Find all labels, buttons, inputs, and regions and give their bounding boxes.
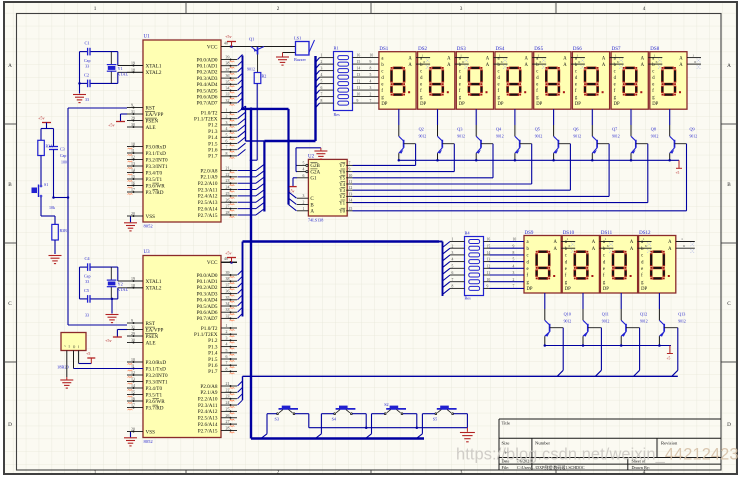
wire CBA fan — [289, 192, 297, 198]
svg-text:1: 1 — [452, 238, 454, 242]
svg-text:15: 15 — [131, 391, 135, 395]
svg-text:U3: U3 — [144, 250, 151, 255]
svg-text:P0.5/AD5: P0.5/AD5 — [197, 88, 218, 94]
svg-text:S5: S5 — [433, 417, 437, 422]
svg-text:Y5: Y5 — [339, 177, 346, 182]
svg-text:8: 8 — [226, 367, 228, 371]
svg-text:P1.7: P1.7 — [208, 369, 218, 375]
svg-text:7: 7 — [226, 361, 228, 365]
svg-text:DP: DP — [565, 287, 571, 292]
svg-text:File:: File: — [502, 465, 510, 470]
wire R4 to DS9 — [490, 241, 525, 243]
svg-text:6: 6 — [578, 60, 580, 64]
svg-text:9: 9 — [370, 60, 372, 64]
svg-text:VCC: VCC — [207, 260, 218, 266]
svg-text:9012: 9012 — [612, 135, 620, 139]
svg-text:P2.3/A11: P2.3/A11 — [198, 187, 218, 193]
svg-text:9012: 9012 — [535, 135, 543, 139]
svg-text:P0.3/AD3: P0.3/AD3 — [197, 76, 218, 82]
svg-text:G2B: G2B — [310, 164, 320, 169]
svg-text:PSEN: PSEN — [146, 118, 159, 124]
svg-text:VSS: VSS — [146, 429, 156, 435]
svg-text:13: 13 — [357, 73, 361, 77]
svg-text:c: c — [603, 254, 605, 259]
svg-text:VCC: VCC — [207, 44, 218, 50]
svg-text:+5: +5 — [86, 351, 90, 356]
svg-text:9: 9 — [131, 104, 133, 108]
resistor R3B — [41, 215, 55, 217]
svg-text:74LS138: 74LS138 — [308, 218, 323, 223]
svg-text:5: 5 — [226, 349, 228, 353]
svg-text:P2.6/A14: P2.6/A14 — [198, 422, 218, 428]
display common pins — [494, 57, 508, 59]
svg-text:XTAL2: XTAL2 — [146, 286, 162, 292]
svg-text:9: 9 — [487, 285, 489, 289]
svg-text:37: 37 — [226, 283, 230, 287]
svg-text:29: 29 — [131, 117, 135, 121]
svg-text:33: 33 — [85, 97, 89, 102]
svg-text:1: 1 — [605, 237, 607, 241]
svg-text:PSEN: PSEN — [146, 334, 159, 340]
wire S5 to ground rail — [454, 413, 468, 415]
svg-text:c: c — [420, 69, 422, 74]
wire R2 down to key bus — [256, 84, 258, 161]
svg-text:P2.4/A12: P2.4/A12 — [198, 409, 218, 415]
svg-text:33: 33 — [85, 313, 89, 318]
svg-text:Q7: Q7 — [612, 127, 617, 132]
svg-text:Q1: Q1 — [249, 37, 254, 42]
svg-text:11: 11 — [131, 365, 135, 369]
svg-text:Q8: Q8 — [651, 127, 656, 132]
svg-text:27: 27 — [226, 205, 230, 209]
svg-text:17: 17 — [131, 188, 135, 192]
svg-text:10k: 10k — [49, 205, 55, 210]
svg-text:Q3: Q3 — [457, 127, 462, 132]
svg-text:6: 6 — [452, 271, 454, 275]
svg-text:Q9: Q9 — [690, 127, 695, 132]
display common pins — [676, 241, 695, 243]
svg-text:3: 3 — [460, 469, 463, 475]
svg-text:C: C — [8, 301, 12, 307]
8052 MCU U3 — [143, 256, 221, 438]
svg-text:C2: C2 — [84, 73, 89, 78]
svg-text:P3.5/T1: P3.5/T1 — [146, 177, 163, 183]
svg-text:e: e — [641, 267, 643, 272]
svg-text:9: 9 — [131, 319, 133, 323]
svg-text:8: 8 — [452, 285, 454, 289]
svg-text:e: e — [575, 82, 577, 87]
svg-text:8: 8 — [321, 99, 323, 103]
wire key bus vertical (from P0 rail) — [250, 107, 253, 110]
svg-text:P1.6: P1.6 — [208, 148, 218, 154]
svg-text:39: 39 — [226, 56, 230, 60]
svg-text:DP: DP — [498, 102, 504, 107]
ground (U2 enable) — [296, 164, 297, 166]
svg-text:Y4: Y4 — [339, 183, 346, 188]
resistor R3A — [40, 129, 42, 141]
wire RST junction — [54, 197, 69, 199]
svg-text:3: 3 — [226, 121, 228, 125]
svg-text:34: 34 — [226, 87, 230, 91]
svg-text:P0.2/AD2: P0.2/AD2 — [197, 285, 218, 291]
wire 18B20 pin1 to ground — [66, 351, 68, 378]
svg-text:32: 32 — [226, 314, 230, 318]
svg-text:Cap: Cap — [60, 154, 66, 158]
display common pins — [687, 57, 701, 59]
wire S4 to key bus — [321, 413, 333, 415]
wire crystal rails — [79, 267, 81, 299]
svg-text:P0.7/AD7: P0.7/AD7 — [197, 316, 218, 322]
svg-text:9012: 9012 — [457, 135, 465, 139]
svg-text:40: 40 — [224, 42, 228, 46]
svg-text:e: e — [614, 82, 616, 87]
svg-text:+5v: +5v — [225, 34, 232, 39]
wire base bus (U3 P2 to Q10-Q13) — [243, 375, 678, 377]
wire emitter rail (bottom) — [545, 345, 671, 347]
svg-text:18: 18 — [131, 68, 135, 72]
svg-text:3: 3 — [321, 67, 323, 71]
wire emitter rail (top) — [399, 159, 679, 161]
svg-text:Q13: Q13 — [678, 312, 685, 317]
svg-text:31: 31 — [131, 326, 135, 330]
wire fan into R4 — [442, 242, 444, 297]
svg-text:P3.2/INT0: P3.2/INT0 — [146, 373, 168, 379]
svg-text:c: c — [565, 254, 567, 259]
wire U1 P0 bus fan — [238, 55, 243, 60]
svg-text:30: 30 — [131, 123, 135, 127]
ground (U1 VSS) — [130, 217, 132, 223]
svg-text:c: c — [498, 69, 500, 74]
svg-text:DP: DP — [652, 102, 658, 107]
svg-text:XTAL2: XTAL2 — [146, 70, 162, 76]
svg-text:EA/VPP: EA/VPP — [146, 327, 164, 333]
svg-text:P1.5: P1.5 — [208, 357, 218, 363]
svg-text:P2.3/A11: P2.3/A11 — [198, 403, 218, 409]
svg-text:6: 6 — [683, 244, 685, 248]
svg-text:A: A — [310, 210, 314, 215]
svg-text:16: 16 — [131, 182, 135, 186]
svg-text:16: 16 — [357, 54, 361, 58]
display common pins — [532, 57, 546, 59]
svg-text:8052: 8052 — [144, 439, 154, 444]
svg-text:P2.5/A13: P2.5/A13 — [198, 416, 218, 422]
svg-text:A: A — [486, 63, 490, 68]
svg-text:B: B — [727, 182, 731, 188]
svg-text:16: 16 — [131, 397, 135, 401]
svg-text:9012: 9012 — [690, 135, 698, 139]
svg-text:4: 4 — [643, 6, 646, 12]
svg-text:P1.4: P1.4 — [208, 351, 218, 357]
svg-text:c: c — [614, 69, 616, 74]
svg-text:9012: 9012 — [247, 67, 255, 72]
svg-text:10: 10 — [349, 174, 353, 178]
svg-text:38: 38 — [226, 62, 230, 66]
svg-text:35: 35 — [226, 80, 230, 84]
svg-text:P2.7/A15: P2.7/A15 — [198, 213, 218, 219]
wire P2 bus stub — [263, 141, 265, 212]
svg-text:19: 19 — [131, 277, 135, 281]
wire U1 P2 fan to P2 bus stub — [238, 170, 257, 172]
svg-text:P0.0/AD0: P0.0/AD0 — [197, 57, 218, 63]
svg-text:P1.4: P1.4 — [208, 135, 218, 141]
ground (U3 VSS) — [130, 432, 132, 437]
svg-text:30: 30 — [131, 339, 135, 343]
svg-text:P1.7: P1.7 — [208, 154, 218, 160]
svg-text:15: 15 — [357, 60, 361, 64]
svg-text:1: 1 — [94, 469, 97, 475]
svg-text:32: 32 — [226, 99, 230, 103]
svg-text:P3.6/WR: P3.6/WR — [146, 399, 166, 405]
svg-text:VSS: VSS — [146, 214, 156, 220]
svg-text:e: e — [536, 82, 538, 87]
svg-text:G1: G1 — [310, 177, 317, 182]
svg-text:6: 6 — [540, 60, 542, 64]
ground (C1/C2) — [78, 82, 81, 85]
wire reset loop top — [41, 128, 54, 130]
svg-text:100: 100 — [61, 161, 67, 165]
svg-text:ALE: ALE — [146, 125, 156, 131]
wire crystal rails — [79, 52, 81, 84]
svg-text:33: 33 — [85, 64, 89, 69]
svg-text:9012: 9012 — [651, 135, 659, 139]
svg-text:13: 13 — [131, 378, 135, 382]
svg-text:1: 1 — [499, 53, 501, 57]
svg-text:2: 2 — [226, 115, 228, 119]
svg-text:P2.1/A9: P2.1/A9 — [200, 390, 218, 396]
svg-text:P1.0/T2: P1.0/T2 — [201, 326, 218, 332]
svg-text:7: 7 — [226, 146, 228, 150]
svg-text:e: e — [565, 267, 567, 272]
svg-text:31: 31 — [131, 110, 135, 114]
svg-text:DP: DP — [420, 102, 426, 107]
svg-text:33: 33 — [85, 279, 89, 284]
svg-text:38: 38 — [226, 277, 230, 281]
svg-text:9012: 9012 — [496, 135, 504, 139]
svg-text:A: A — [486, 56, 490, 61]
svg-text:P3.5/T1: P3.5/T1 — [146, 392, 163, 398]
svg-text:P1.1/T2EX: P1.1/T2EX — [194, 117, 218, 123]
sensor 18B20 — [61, 333, 86, 351]
svg-text:Q4: Q4 — [496, 127, 502, 132]
svg-text:P0.1/AD1: P0.1/AD1 — [197, 64, 218, 70]
svg-text:9012: 9012 — [564, 320, 572, 324]
svg-text:DP: DP — [459, 102, 465, 107]
svg-text:6: 6 — [423, 60, 425, 64]
svg-text:P3.4/T0: P3.4/T0 — [146, 170, 163, 176]
svg-text:D: D — [8, 422, 12, 428]
svg-text:9012: 9012 — [602, 320, 610, 324]
svg-text:28: 28 — [226, 426, 230, 430]
svg-text:e: e — [420, 82, 422, 87]
svg-text:6: 6 — [303, 174, 305, 178]
svg-text:P3.0/RxD: P3.0/RxD — [146, 360, 167, 366]
display common pins — [561, 241, 575, 243]
svg-text:RST: RST — [146, 321, 156, 327]
svg-text:6: 6 — [501, 60, 503, 64]
svg-text:R3B: R3B — [60, 228, 68, 233]
wire U1 P1 fan — [238, 106, 246, 113]
svg-text:12: 12 — [357, 80, 361, 84]
svg-text:P2.2/A10: P2.2/A10 — [198, 181, 218, 187]
svg-text:Drawn By:: Drawn By: — [632, 465, 651, 470]
svg-text:P0.5/AD5: P0.5/AD5 — [197, 304, 218, 310]
svg-text:2: 2 — [321, 60, 323, 64]
svg-text:P1.2: P1.2 — [208, 338, 218, 344]
svg-text:1: 1 — [692, 53, 694, 57]
svg-text:26: 26 — [226, 198, 230, 202]
svg-text:XTAL: XTAL — [117, 72, 128, 77]
svg-text:6: 6 — [617, 60, 619, 64]
svg-text:Q11: Q11 — [602, 312, 609, 317]
svg-text:e: e — [459, 82, 461, 87]
svg-text:2: 2 — [226, 330, 228, 334]
svg-text:(): () — [73, 345, 75, 349]
svg-text:): ) — [78, 345, 79, 349]
svg-text:4: 4 — [303, 168, 305, 172]
svg-text:23: 23 — [226, 179, 230, 183]
svg-text:P1.6: P1.6 — [208, 363, 218, 369]
svg-text:c: c — [536, 69, 538, 74]
svg-text:P1.5: P1.5 — [208, 141, 218, 147]
svg-text:c: c — [652, 69, 654, 74]
svg-text:c: c — [527, 254, 529, 259]
svg-text:11: 11 — [357, 86, 361, 90]
svg-text:19: 19 — [131, 62, 135, 66]
svg-text:1: 1 — [643, 237, 645, 241]
svg-text:21: 21 — [226, 167, 230, 171]
svg-text:17: 17 — [131, 404, 135, 408]
svg-text:Y1: Y1 — [339, 201, 346, 206]
display common pins — [599, 241, 613, 243]
svg-text:A: A — [727, 63, 731, 69]
svg-text:DP: DP — [614, 102, 620, 107]
svg-text:11: 11 — [131, 149, 135, 153]
svg-text:U1: U1 — [144, 35, 151, 40]
svg-text:33: 33 — [226, 93, 230, 97]
svg-text:1: 1 — [226, 324, 228, 328]
svg-text:P2.0/A8: P2.0/A8 — [200, 384, 218, 390]
svg-text:20: 20 — [131, 212, 135, 216]
svg-text:Y7: Y7 — [339, 164, 346, 169]
power +5v (U2 G1) — [293, 177, 297, 179]
svg-text:RST: RST — [146, 105, 156, 111]
svg-text:EA/VPP: EA/VPP — [146, 112, 164, 118]
svg-text:P3.1/TxD: P3.1/TxD — [146, 151, 167, 157]
display common pins — [638, 241, 652, 243]
svg-text:P2.0/A8: P2.0/A8 — [200, 168, 218, 174]
ground (C4/C5) — [111, 298, 114, 301]
svg-text:9: 9 — [357, 99, 359, 103]
svg-text:36: 36 — [226, 74, 230, 78]
wire key bus horizontal — [251, 437, 424, 439]
svg-text:12: 12 — [131, 371, 135, 375]
wire S3 to ground rail — [295, 413, 309, 415]
svg-text:13: 13 — [349, 192, 353, 196]
power +5v (U1 VCC) — [230, 45, 233, 48]
svg-text:Y6: Y6 — [339, 170, 346, 175]
ground (R3B) — [49, 255, 62, 257]
svg-text:+5: +5 — [676, 171, 680, 175]
svg-text:LS1: LS1 — [294, 36, 301, 41]
ground (buzzer) — [283, 52, 296, 54]
display common pins — [610, 57, 624, 59]
svg-text:e: e — [527, 267, 529, 272]
svg-text:20: 20 — [131, 428, 135, 432]
wire 18B20 VDD to +5 — [78, 351, 80, 364]
svg-text:R4: R4 — [465, 231, 471, 236]
svg-text:3: 3 — [226, 336, 228, 340]
svg-text:Q6: Q6 — [573, 127, 578, 132]
ground (switches) — [466, 428, 468, 432]
display common pins — [416, 57, 430, 59]
svg-text:25: 25 — [226, 407, 230, 411]
svg-text:P3.7/RD: P3.7/RD — [146, 405, 164, 411]
svg-text:27: 27 — [226, 420, 230, 424]
svg-text:6: 6 — [694, 60, 696, 64]
svg-text:XTAL1: XTAL1 — [146, 279, 162, 285]
svg-text:24: 24 — [226, 401, 230, 405]
capacitor C3 — [53, 129, 55, 147]
svg-text:P3.1/TxD: P3.1/TxD — [146, 366, 167, 372]
svg-text:7: 7 — [452, 278, 454, 282]
svg-text:6: 6 — [607, 244, 609, 248]
ground (18B20) — [66, 377, 68, 380]
svg-text:10: 10 — [131, 358, 135, 362]
svg-text:c: c — [575, 69, 577, 74]
svg-text:C4: C4 — [85, 256, 91, 261]
svg-text:S2: S2 — [384, 402, 388, 407]
svg-text:11: 11 — [349, 180, 353, 184]
svg-text:39: 39 — [226, 271, 230, 275]
svg-text:A: A — [679, 56, 683, 61]
svg-text:5: 5 — [303, 161, 305, 165]
svg-text:1: 1 — [538, 53, 540, 57]
svg-text:36: 36 — [226, 290, 230, 294]
svg-text:26: 26 — [226, 414, 230, 418]
svg-text:6: 6 — [321, 86, 323, 90]
svg-text:Buzzer: Buzzer — [294, 57, 306, 62]
svg-text:e: e — [603, 267, 605, 272]
svg-text:1: 1 — [681, 237, 683, 241]
svg-text:33: 33 — [226, 308, 230, 312]
svg-text:R2: R2 — [262, 74, 267, 79]
svg-text:6: 6 — [226, 140, 228, 144]
svg-text:C:\Users\...\DXP例程\数码瑖1.SCHDOC: C:\Users\...\DXP例程\数码瑖1.SCHDOC — [517, 464, 585, 470]
svg-text:3: 3 — [460, 6, 463, 12]
svg-text:4: 4 — [452, 258, 454, 262]
svg-text:P0.4/AD4: P0.4/AD4 — [197, 298, 218, 304]
svg-text:2: 2 — [452, 244, 454, 248]
svg-text:C3: C3 — [60, 147, 65, 152]
svg-text:Y2: Y2 — [118, 282, 123, 287]
svg-text:P2.2/A10: P2.2/A10 — [198, 397, 218, 403]
svg-text:2: 2 — [370, 93, 372, 97]
svg-text:XTAL: XTAL — [117, 287, 128, 292]
power +5 (18B20) — [90, 358, 92, 364]
wire S4 to ground rail — [352, 413, 366, 415]
svg-text:7: 7 — [349, 161, 351, 165]
svg-text:1: 1 — [94, 6, 97, 12]
svg-text:3: 3 — [303, 194, 305, 198]
svg-text:A: A — [679, 63, 683, 68]
svg-text:5: 5 — [370, 73, 372, 77]
svg-text:34: 34 — [226, 302, 230, 306]
svg-text:6: 6 — [645, 244, 647, 248]
wire S2 to ground rail — [403, 413, 417, 415]
svg-text:Y0: Y0 — [339, 210, 346, 215]
svg-text:6: 6 — [656, 60, 658, 64]
power (rail end, bottom) — [669, 346, 671, 354]
